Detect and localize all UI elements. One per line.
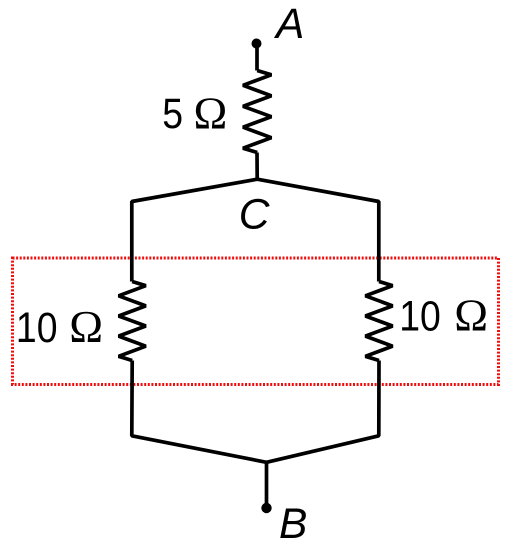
- red dotted highlight box around parallel resistors: [13, 258, 499, 385]
- node A terminal dot: [252, 39, 262, 49]
- svg-text:10: 10: [16, 305, 58, 352]
- svg-text:A: A: [273, 1, 304, 48]
- svg-text:B: B: [279, 501, 307, 548]
- resistor 10 ohm left branch: [119, 282, 146, 361]
- wire left branch down to node B junction: [132, 361, 267, 463]
- svg-text:C: C: [239, 192, 270, 239]
- wire node C to left branch: [132, 179, 257, 281]
- svg-text:Ω: Ω: [69, 301, 103, 352]
- wire from node A down to resistor 5 ohm: [255, 44, 259, 71]
- svg-text:Ω: Ω: [454, 289, 488, 340]
- wire right branch down to node B junction: [267, 361, 380, 463]
- wire node C to right branch: [257, 179, 379, 281]
- node B terminal dot: [261, 503, 271, 513]
- resistor 5 ohm (between A and C): [243, 71, 271, 153]
- wire from 5 ohm resistor down to node C: [255, 153, 259, 180]
- svg-text:Ω: Ω: [194, 88, 228, 139]
- svg-text:10: 10: [399, 293, 441, 340]
- resistor 10 ohm right branch: [365, 282, 392, 361]
- wire junction down to node B terminal: [265, 462, 269, 505]
- svg-text:5: 5: [162, 91, 183, 138]
